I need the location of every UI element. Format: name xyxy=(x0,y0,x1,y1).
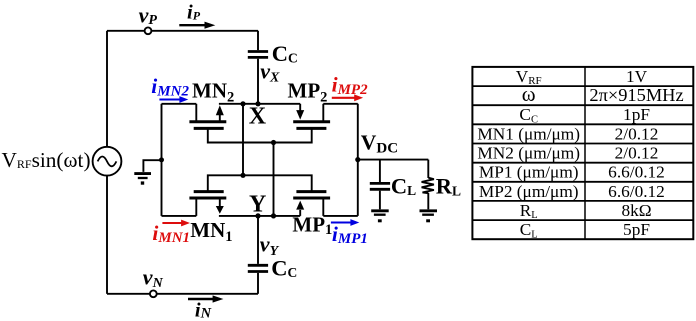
node X dot xyxy=(240,101,245,106)
node vP open circle xyxy=(145,27,152,34)
transistor MP2 xyxy=(299,104,301,112)
svg-text:MP2 (μm/μm): MP2 (μm/μm) xyxy=(479,182,579,201)
node Y dot to top gates xyxy=(271,213,276,218)
wire top gates to Y xyxy=(273,143,275,216)
wire CC top stubs xyxy=(257,31,259,104)
svg-text:iN: iN xyxy=(195,299,212,321)
current arrow iN xyxy=(188,298,214,300)
svg-text:MN1: MN1 xyxy=(190,218,232,245)
current arrow iMP1 xyxy=(331,221,352,223)
svg-text:Y: Y xyxy=(249,192,266,218)
wire X to bottom gates xyxy=(242,104,244,176)
voltage source VRF circle xyxy=(93,147,122,176)
wire left rail bottom xyxy=(106,176,108,294)
capacitor CC top plates xyxy=(248,52,268,58)
svg-text:CC: CC xyxy=(519,105,538,125)
wire left rail top xyxy=(106,31,108,147)
wire Y row left segment xyxy=(162,215,197,217)
wire X row center segment xyxy=(219,103,300,105)
wire Y to CC bottom xyxy=(257,216,259,264)
svg-text:VDC: VDC xyxy=(361,130,398,156)
resistor RL xyxy=(427,160,429,178)
capacitor CL xyxy=(379,160,381,182)
ground symbol left xyxy=(134,172,151,175)
voltage source sine symbol xyxy=(98,157,117,167)
svg-text:2/0.12: 2/0.12 xyxy=(615,124,659,143)
svg-text:1pF: 1pF xyxy=(623,105,650,124)
svg-text:VRFsin(ωt): VRFsin(ωt) xyxy=(2,148,91,172)
svg-text:vN: vN xyxy=(143,265,164,292)
svg-text:6.6/0.12: 6.6/0.12 xyxy=(608,163,665,182)
svg-text:CC: CC xyxy=(272,41,298,66)
wire VDC branch xyxy=(358,159,429,161)
svg-text:2π×915MHz: 2π×915MHz xyxy=(589,85,683,105)
wire top gates line xyxy=(208,128,312,142)
wire top rail xyxy=(107,30,258,32)
node VDC dot xyxy=(355,157,360,162)
svg-text:CL: CL xyxy=(391,174,416,199)
svg-text:6.6/0.12: 6.6/0.12 xyxy=(608,182,665,201)
wire X row right segment xyxy=(323,103,358,105)
wire to ground symbol xyxy=(143,160,161,172)
node vN open circle xyxy=(150,290,157,297)
svg-text:MP1 (μm/μm): MP1 (μm/μm) xyxy=(479,163,579,182)
node top-gates dot xyxy=(271,140,276,145)
wire bottom gates line xyxy=(208,175,312,191)
ground symbol CL xyxy=(371,209,389,212)
node ground rail dot xyxy=(159,157,164,162)
svg-text:ω: ω xyxy=(522,82,536,106)
svg-text:MN2: MN2 xyxy=(192,78,234,105)
wire Y row right segment xyxy=(323,215,358,217)
svg-text:5pF: 5pF xyxy=(623,220,650,239)
svg-text:MN1 (μm/μm): MN1 (μm/μm) xyxy=(477,124,580,143)
current arrow iMN1 xyxy=(162,222,182,224)
current arrow iMN2 xyxy=(159,98,180,100)
svg-text:iMN2: iMN2 xyxy=(151,74,189,100)
ground symbol RL xyxy=(420,209,438,212)
node Y dot to CC xyxy=(255,213,260,218)
transistor MP1 xyxy=(299,210,301,216)
svg-text:RL: RL xyxy=(520,201,538,221)
node bottom-gates dot xyxy=(240,173,245,178)
svg-text:X: X xyxy=(249,103,267,129)
svg-text:CL: CL xyxy=(520,220,538,240)
svg-text:MN2 (μm/μm): MN2 (μm/μm) xyxy=(477,144,580,163)
node CC-stub dot xyxy=(255,101,260,106)
current arrow iP xyxy=(179,24,206,26)
right rail wire xyxy=(357,104,359,216)
transistor MN1 xyxy=(195,198,197,216)
wire X row left segment xyxy=(162,103,197,105)
svg-text:CC: CC xyxy=(271,255,297,280)
svg-text:RL: RL xyxy=(436,174,461,199)
svg-text:8kΩ: 8kΩ xyxy=(621,201,651,220)
svg-text:2/0.12: 2/0.12 xyxy=(615,144,659,163)
capacitor CC bottom plates xyxy=(248,265,268,271)
transistor MN2 xyxy=(195,104,197,122)
svg-text:iMP1: iMP1 xyxy=(332,222,368,247)
svg-text:MP2: MP2 xyxy=(288,78,328,105)
svg-text:iP: iP xyxy=(187,1,201,23)
parameter table frame xyxy=(472,67,693,239)
ground rail left xyxy=(161,104,163,216)
svg-text:iMP2: iMP2 xyxy=(332,73,368,98)
svg-text:vP: vP xyxy=(139,2,158,28)
current arrow iMP2 xyxy=(332,97,356,99)
svg-text:1V: 1V xyxy=(626,67,648,86)
wire bottom rail xyxy=(107,293,258,295)
wire Y row center segment xyxy=(219,215,300,217)
wire CC bottom stub xyxy=(257,273,259,294)
